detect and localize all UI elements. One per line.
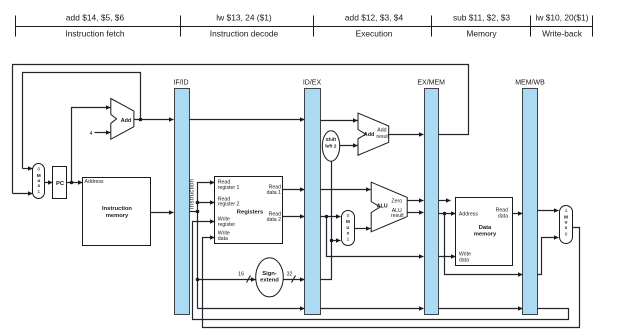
- adder Add (branch target): [358, 113, 389, 155]
- wire: Zero stub out of EX/MEM: [439, 200, 451, 202]
- svg-text:Write-back: Write-back: [542, 28, 583, 38]
- svg-text:M: M: [564, 215, 568, 221]
- svg-text:lw $10, 20($1): lw $10, 20($1): [535, 13, 588, 23]
- svg-text:Zero: Zero: [391, 198, 402, 204]
- adder Add (PC+4): [111, 99, 134, 140]
- svg-text:1: 1: [565, 208, 568, 213]
- svg-text:extend: extend: [260, 278, 279, 284]
- svg-text:Instruction: Instruction: [189, 178, 196, 209]
- svg-text:ID/EX: ID/EX: [303, 80, 322, 87]
- svg-text:16: 16: [238, 271, 244, 277]
- wire: read data 1 from ID/EX to ALU: [321, 189, 371, 191]
- wire: store value down to EX/MEM: [327, 217, 424, 257]
- wire: sign extend to ID/EX: [284, 279, 305, 281]
- table rule: [16, 26, 593, 28]
- wire: immediate from ID/EX up to mux and shift: [321, 162, 332, 280]
- node: PC+4 junction: [139, 118, 143, 122]
- wire: arrow into PC mux input 0: [23, 168, 33, 170]
- svg-text:Data: Data: [479, 225, 492, 231]
- register file Registers: [215, 177, 283, 244]
- svg-text:sub $11, $2, $3: sub $11, $2, $3: [453, 13, 510, 23]
- shifter Shift left 2: [322, 131, 339, 161]
- wire: PC+4 from IF/ID to ID/EX: [190, 119, 305, 121]
- svg-text:Shift: Shift: [325, 137, 336, 143]
- svg-text:ALU: ALU: [377, 203, 388, 209]
- node: ALU result junction: [443, 212, 447, 216]
- wire: 4 into Add: [95, 132, 111, 134]
- svg-text:add $14, $5, $6: add $14, $5, $6: [66, 13, 125, 23]
- memory: instruction memory: [83, 178, 151, 246]
- wire: write register number into ID/EX: [198, 308, 305, 310]
- pipeline register MEM/WB: [523, 89, 538, 315]
- svg-text:EX/MEM: EX/MEM: [417, 80, 445, 87]
- svg-text:result: result: [391, 213, 404, 219]
- svg-text:32: 32: [287, 271, 293, 277]
- svg-text:register 1: register 1: [218, 185, 240, 191]
- wire: ALU result to EX/MEM: [408, 212, 424, 214]
- wire: ALU result to data memory Address: [439, 213, 456, 215]
- wire: instruction bus vertical: [198, 183, 215, 309]
- node: PC output junction: [70, 181, 74, 185]
- svg-text:Add: Add: [121, 118, 131, 124]
- wire: branch target to EX/MEM: [389, 134, 424, 136]
- wire: mux to PC: [45, 182, 53, 184]
- wire: mux to ALU: [355, 228, 371, 230]
- wire: ALU result pass-under to MEM/WB: [445, 214, 523, 275]
- svg-text:MEM/WB: MEM/WB: [515, 80, 545, 87]
- mux M1 (PC source): [33, 164, 45, 199]
- node: read register 2 branch: [196, 201, 200, 205]
- svg-text:Add: Add: [364, 132, 374, 138]
- svg-text:Execution: Execution: [356, 28, 393, 38]
- svg-text:Instruction: Instruction: [102, 206, 132, 212]
- svg-text:Instruction decode: Instruction decode: [210, 28, 279, 38]
- node: immediate branch: [330, 239, 334, 243]
- svg-text:Instruction fetch: Instruction fetch: [65, 28, 124, 38]
- wire: branch target loop EX/MEM to PC mux: [13, 65, 469, 194]
- svg-text:register: register: [218, 222, 236, 228]
- svg-text:lw $13, 24 ($1): lw $13, 24 ($1): [216, 13, 272, 23]
- svg-text:add $12, $3, $4: add $12, $3, $4: [345, 13, 404, 23]
- svg-text:data 1: data 1: [267, 190, 282, 196]
- alu ALU: [371, 182, 407, 232]
- register PC: [53, 167, 67, 199]
- node: read data 2 branch: [325, 215, 329, 219]
- svg-text:u: u: [565, 221, 568, 226]
- pipeline register IF/ID: [175, 89, 190, 315]
- wire: store value to data memory Write data: [439, 256, 456, 258]
- wire: PC+4 from ID/EX to branch Add: [321, 120, 358, 122]
- wire: to read register 2: [198, 202, 215, 204]
- svg-text:0: 0: [347, 213, 350, 218]
- memory: data memory: [456, 198, 513, 266]
- svg-text:register 2: register 2: [218, 202, 240, 208]
- svg-text:data 2: data 2: [267, 217, 282, 223]
- svg-text:Memory: Memory: [466, 28, 497, 38]
- svg-text:Registers: Registers: [237, 209, 263, 215]
- wire: PC to instruction memory Address: [67, 182, 83, 184]
- table ticks: [15, 16, 17, 37]
- svg-text:left 2: left 2: [325, 144, 337, 150]
- wire: to sign extend: [198, 279, 256, 281]
- svg-text:data: data: [459, 257, 469, 263]
- wire: PC up to Add: [72, 108, 111, 183]
- svg-text:data: data: [498, 214, 508, 220]
- wire: write register number loop to Registers write register: [193, 222, 569, 320]
- wire: read data 1 to ID/EX: [283, 189, 305, 191]
- svg-text:0: 0: [37, 167, 40, 172]
- svg-text:Address: Address: [459, 212, 478, 218]
- svg-text:PC: PC: [56, 181, 65, 187]
- svg-text:data: data: [218, 236, 228, 242]
- svg-text:memory: memory: [474, 232, 497, 238]
- wire: write register number EX/MEM to MEM/WB: [439, 308, 523, 310]
- svg-text:Address: Address: [85, 179, 104, 185]
- wire: write register number ID/EX to EX/MEM: [321, 308, 424, 310]
- wire: read data 2 to ID/EX: [283, 216, 305, 218]
- sign extender: [256, 258, 284, 297]
- wire: arrow into PC mux input 1: [13, 193, 33, 195]
- pipeline register EX/MEM: [425, 89, 439, 315]
- wire: Add output to IF/ID: [134, 119, 174, 121]
- svg-text:Sign-: Sign-: [262, 271, 277, 277]
- svg-text:Add: Add: [377, 127, 386, 133]
- mux M2 (ALU source): [342, 211, 355, 246]
- svg-text:1: 1: [37, 189, 40, 194]
- svg-text:result: result: [376, 134, 389, 140]
- wire: instruction memory to IF/ID: [151, 212, 174, 214]
- svg-text:memory: memory: [106, 213, 129, 219]
- wire: read data from MEM/WB to WB mux: [538, 210, 559, 212]
- node: sign extend branch: [196, 278, 200, 282]
- wire: write-back data loop to Registers write data: [203, 228, 580, 328]
- svg-text:4: 4: [90, 131, 93, 137]
- mux M3 (write-back): [560, 206, 573, 244]
- wire: arrow into ALU mux input 1: [332, 240, 341, 242]
- wire: PC+4 loop Add to PC mux: [23, 73, 141, 169]
- svg-text:u: u: [346, 226, 349, 231]
- svg-text:0: 0: [565, 231, 568, 236]
- svg-text:M: M: [346, 219, 350, 225]
- svg-text:IF/ID: IF/ID: [173, 80, 188, 87]
- svg-text:1: 1: [347, 236, 350, 241]
- node: instruction junction: [196, 210, 200, 214]
- pipeline register ID/EX: [305, 89, 321, 315]
- wire: ALU result from MEM/WB up to WB mux: [538, 238, 559, 275]
- wire: Zero to EX/MEM: [408, 200, 424, 202]
- wire: instruction out of IF/ID: [190, 211, 198, 213]
- wire: read data to MEM/WB: [513, 213, 523, 215]
- wire: read data 2 from ID/EX to ALU mux: [321, 216, 341, 218]
- wire: shift left 2 to branch Add: [340, 145, 358, 147]
